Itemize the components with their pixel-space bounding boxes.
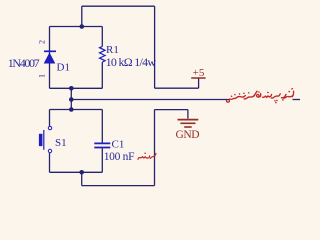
node: junction on long net bbox=[69, 97, 74, 102]
wire: switch branch lower lead bbox=[49, 153, 51, 173]
wire: lower loop top rail bbox=[50, 109, 103, 111]
power symbol +5 bbox=[191, 67, 205, 79]
wire: stub from top rail up to top wire bbox=[81, 6, 83, 26]
wire: resistor branch lower lead bbox=[101, 62, 103, 88]
wire: resistor branch upper lead bbox=[101, 27, 103, 47]
svg-text:1: 1 bbox=[38, 74, 47, 78]
resistor R1 bbox=[100, 46, 106, 62]
wire: right vertical drop to +5 rail bbox=[154, 6, 156, 88]
wire: top loop top rail bbox=[50, 26, 103, 28]
wire: +5 rail horizontal bbox=[155, 87, 199, 89]
wire: +5 pin stub bbox=[198, 78, 200, 88]
switch S1 bbox=[39, 126, 52, 152]
svg-text:D1: D1 bbox=[57, 62, 70, 74]
wire: GND pin stub bbox=[187, 110, 189, 119]
ground symbol GND bbox=[176, 120, 200, 141]
svg-text:2: 2 bbox=[38, 40, 47, 44]
diode D1 bbox=[44, 51, 56, 63]
node: junction on lower loop bottom rail bbox=[79, 170, 84, 175]
wire: capacitor branch lower lead bbox=[101, 148, 103, 172]
svg-text:GND: GND bbox=[176, 129, 200, 141]
wire: middle vertical connector between rails bbox=[70, 88, 72, 109]
annotation: red handwritten note over the long net bbox=[227, 89, 294, 103]
wire: top loop bottom rail bbox=[50, 87, 103, 89]
svg-text:100 nF: 100 nF bbox=[104, 151, 135, 163]
wire: lower loop bottom rail bbox=[50, 171, 103, 173]
svg-text:1N4007: 1N4007 bbox=[8, 56, 40, 70]
wire: ground return bottom horizontal bbox=[82, 185, 155, 187]
svg-text:S1: S1 bbox=[55, 137, 67, 149]
svg-text:10 kΩ 1/4w: 10 kΩ 1/4w bbox=[106, 55, 157, 69]
wire: capacitor branch upper lead bbox=[101, 110, 103, 143]
node: junction on top rail bbox=[80, 24, 85, 29]
capacitor C1 bbox=[94, 143, 110, 147]
wire: long horizontal net to microcontroller (right part) bbox=[293, 99, 301, 101]
wire: switch branch upper lead bbox=[49, 110, 51, 127]
annotation: red handwritten word next to 100 nF bbox=[138, 153, 156, 159]
wire: top horizontal run bbox=[82, 5, 155, 7]
node: junction top rail of lower loop bbox=[69, 107, 74, 112]
wire: long horizontal net to microcontroller (left part) bbox=[71, 99, 229, 101]
wire: ground return drop from bottom rail bbox=[81, 172, 83, 185]
svg-text:C1: C1 bbox=[112, 139, 125, 151]
svg-text:+5: +5 bbox=[193, 67, 205, 79]
node: junction bottom rail of top loop bbox=[69, 86, 74, 91]
wire: ground branch horizontal to GND bbox=[155, 109, 188, 111]
wire: diode branch vertical bbox=[49, 27, 51, 89]
wire: ground return right vertical riser bbox=[154, 110, 156, 186]
